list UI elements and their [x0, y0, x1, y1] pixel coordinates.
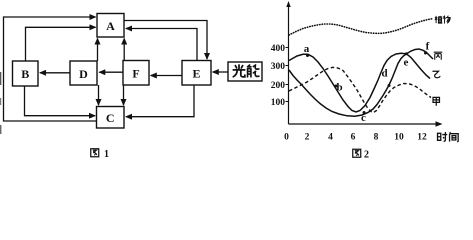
box F [123, 61, 149, 86]
wire C to A (outer loop) [4, 17, 97, 121]
svg-text:200: 200 [271, 81, 286, 91]
label 光 [233, 65, 245, 77]
curve 乙 (solid, peak a) [289, 53, 430, 112]
caption 图2 [353, 149, 361, 157]
point d [388, 84, 391, 87]
curve 甲 (dashed) [289, 67, 431, 112]
wire D to C [98, 85, 100, 105]
svg-text:400: 400 [271, 44, 286, 54]
svg-text:2: 2 [305, 133, 310, 143]
point e [405, 52, 408, 55]
svg-text:1: 1 [104, 149, 109, 160]
svg-text:f: f [426, 41, 430, 53]
y-axis arrowhead [286, 1, 290, 7]
curve 丙 (solid, through c d e f) [289, 49, 433, 116]
label 植物 [435, 16, 443, 23]
y ticks [286, 48, 289, 102]
box C [97, 107, 125, 129]
point f [424, 52, 427, 55]
svg-text:b: b [336, 82, 342, 94]
svg-text:d: d [381, 68, 387, 80]
wire E to A [126, 29, 197, 61]
wire D to B [40, 72, 70, 74]
svg-text:B: B [21, 67, 29, 81]
svg-text:C: C [106, 111, 115, 125]
svg-text:12: 12 [417, 133, 427, 143]
svg-text:0: 0 [284, 133, 289, 143]
point a [306, 54, 309, 57]
y-axis [288, 4, 290, 124]
wire B to A [26, 27, 96, 61]
wire 光能 to E [213, 71, 228, 73]
label 能 [248, 65, 259, 77]
point c [363, 111, 366, 114]
svg-text:4: 4 [328, 133, 333, 143]
svg-text:E: E [192, 67, 200, 81]
wire B to C [25, 86, 96, 116]
svg-text:c: c [361, 112, 366, 124]
svg-text:e: e [404, 57, 409, 69]
label 甲 [433, 97, 439, 105]
svg-text:8: 8 [374, 133, 379, 143]
svg-text:6: 6 [351, 133, 356, 143]
wire F to D [99, 71, 123, 73]
box B [13, 61, 39, 86]
label 乙 [433, 71, 440, 77]
wire F to C [123, 85, 125, 105]
scan artifact marks at left edge [0, 72, 1, 85]
svg-text:2: 2 [364, 150, 369, 161]
box D [70, 61, 97, 85]
x-axis [289, 123, 439, 125]
svg-text:300: 300 [271, 62, 286, 72]
box A [97, 14, 124, 38]
x-axis arrowhead [436, 121, 443, 126]
caption 图1 [91, 149, 99, 157]
wire D to A [97, 39, 99, 62]
svg-text:a: a [304, 43, 310, 55]
axis label 时间 [438, 132, 448, 141]
wire E to F [151, 75, 183, 77]
point b [335, 85, 338, 88]
box E [182, 61, 211, 86]
svg-text:100: 100 [271, 98, 286, 108]
wire A to E [124, 21, 207, 60]
svg-text:A: A [106, 19, 115, 33]
svg-text:10: 10 [394, 133, 404, 143]
svg-text:F: F [132, 67, 139, 81]
wire F to A [123, 39, 125, 61]
label 丙 [434, 52, 442, 60]
wire E to C [126, 85, 194, 117]
svg-text:D: D [79, 67, 88, 81]
box 光能 [228, 62, 262, 81]
curve 植物 (dotted) [289, 19, 432, 35]
